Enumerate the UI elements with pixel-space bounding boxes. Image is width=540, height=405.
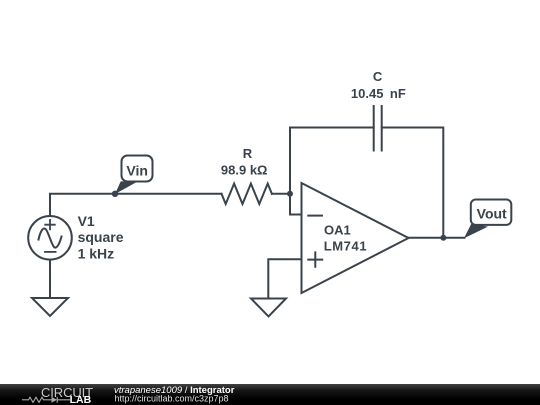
svg-text:98.9 kΩ: 98.9 kΩ	[221, 162, 268, 177]
svg-text:Vin: Vin	[126, 162, 148, 178]
svg-text:Vout: Vout	[477, 206, 507, 222]
flag Vin box	[122, 156, 153, 182]
flag Vout box	[471, 200, 512, 225]
svg-text:OA1: OA1	[324, 222, 351, 237]
op-amp U1 triangle	[302, 183, 409, 293]
wire feedback top left segment	[290, 127, 374, 129]
svg-text:R: R	[243, 146, 253, 161]
svg-text:nF: nF	[390, 86, 406, 101]
wire input net from V1 to resistor	[50, 194, 222, 216]
wire feedback top right segment and right vertical	[382, 128, 444, 238]
svg-text:V1: V1	[78, 213, 95, 229]
flag Vout pointer tail	[464, 224, 488, 239]
svg-text:square: square	[78, 229, 124, 245]
wire resistor to op-amp node	[272, 193, 290, 195]
ground (op-amp +)	[251, 299, 286, 317]
ground (V1)	[32, 298, 68, 316]
svg-text:LAB: LAB	[70, 394, 92, 405]
resistor R	[222, 184, 272, 204]
svg-text:1 kHz: 1 kHz	[78, 246, 115, 262]
node inverting input junction dot	[287, 191, 293, 197]
svg-text:LM741: LM741	[324, 238, 367, 253]
svg-text:http://circuitlab.com/c3zp7p8: http://circuitlab.com/c3zp7p8	[115, 393, 229, 403]
node Vin junction dot	[112, 191, 118, 197]
wire non-inverting input to ground	[268, 259, 301, 298]
footer bar	[0, 384, 540, 405]
flag Vin pointer tail	[115, 181, 136, 194]
wire feedback left vertical and to inverting input	[290, 128, 302, 215]
wire V1 to ground	[49, 260, 51, 298]
voltage source V1	[28, 216, 72, 260]
op-amp plus input symbol	[308, 252, 322, 266]
capacitor C plates	[374, 106, 382, 151]
op-amp minus input symbol	[308, 215, 322, 217]
svg-text:C: C	[373, 69, 383, 84]
logo circuit line with resistor and diode	[22, 397, 70, 403]
node output junction dot	[440, 235, 446, 241]
svg-text:10.45: 10.45	[351, 86, 384, 101]
wire op-amp output	[409, 237, 465, 239]
